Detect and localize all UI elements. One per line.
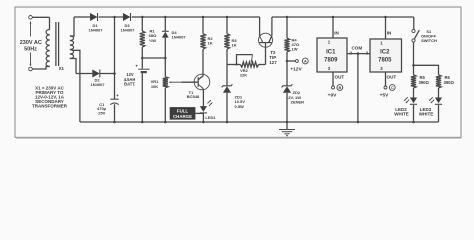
wire AC bottom to transformer	[32, 67, 50, 70]
svg-text:OUT: OUT	[387, 74, 397, 79]
wire LED1 to ground	[202, 113, 204, 122]
svg-text:IN: IN	[387, 31, 392, 36]
node ground VR1	[164, 121, 167, 124]
svg-text:OUT: OUT	[335, 74, 345, 79]
svg-text:BATT.: BATT.	[124, 81, 135, 86]
wire bus to R1	[141, 17, 143, 31]
svg-text:1N4007: 1N4007	[88, 28, 103, 33]
resistor R2	[200, 34, 205, 50]
wire IC1 out	[332, 72, 334, 86]
capacitor C1	[110, 98, 118, 100]
node R4 top	[286, 16, 289, 19]
svg-text:1W: 1W	[292, 47, 298, 52]
svg-text:+12V: +12V	[290, 66, 302, 72]
svg-text:SWITCH: SWITCH	[421, 38, 437, 43]
node ground COM	[357, 121, 360, 124]
svg-text:X1: X1	[59, 66, 65, 71]
resistor R3	[224, 34, 229, 50]
node R1 top	[141, 16, 144, 19]
potentiometer VR1	[163, 77, 168, 88]
wire bus to S1	[413, 17, 415, 29]
resistor R1	[140, 31, 145, 47]
ground	[286, 122, 288, 129]
transformer X1 secondary coil	[70, 36, 74, 59]
wire COM to ground	[357, 54, 359, 122]
wire node to ZD2	[286, 61, 288, 86]
svg-text:LED1: LED1	[205, 115, 216, 120]
wire bus to R2	[202, 17, 204, 34]
svg-text:IC1: IC1	[326, 49, 336, 55]
wire D3 to R1 node	[132, 16, 143, 18]
svg-text:10K: 10K	[151, 84, 158, 89]
wire R2 to T1 collector	[202, 49, 204, 75]
wire T2 collector	[271, 17, 273, 36]
border frame	[15, 7, 461, 137]
node D4 top	[164, 16, 167, 19]
wire VR1 to ground	[164, 88, 166, 122]
switch S1	[412, 29, 415, 32]
wire bus to R3	[226, 17, 228, 34]
AC arrow up	[30, 22, 32, 37]
wire T1 base	[182, 81, 199, 83]
wire LED2 to ground	[413, 105, 415, 122]
AC live terminal	[29, 15, 33, 19]
node +12V	[286, 60, 289, 63]
svg-text:127: 127	[269, 60, 277, 65]
wire T2 base down	[265, 43, 267, 65]
wire secondary top to D1	[74, 16, 90, 18]
transformer X1 primary lead	[49, 17, 51, 29]
svg-text:TRANSFORMER: TRANSFORMER	[32, 103, 68, 108]
transformer X1 center tap	[72, 50, 80, 122]
wire R5 to LED2	[413, 88, 415, 98]
node LED rail	[412, 64, 415, 67]
svg-text:390Ω: 390Ω	[419, 80, 430, 85]
svg-text:B: B	[338, 86, 341, 90]
transformer X1 primary coil	[46, 30, 50, 67]
wire bus to T2 emitter	[254, 16, 260, 18]
wire S1 to LED rail	[413, 42, 415, 75]
potentiometer VR2	[240, 62, 258, 67]
svg-text:7809: 7809	[324, 58, 338, 64]
node R2 top	[202, 16, 205, 19]
wire C1 to ground	[114, 104, 116, 122]
svg-text:WHITE: WHITE	[394, 112, 409, 117]
svg-text:1K: 1K	[208, 40, 213, 45]
wire bus to R4	[286, 17, 288, 38]
wire ZD1 top	[226, 65, 228, 87]
svg-text:+5V: +5V	[380, 93, 389, 99]
terminal C	[384, 86, 387, 89]
wire D2 anode	[76, 73, 92, 75]
zener ZD1	[222, 84, 233, 87]
op-amp U1 IC1 7809 box	[317, 38, 347, 72]
diode D4	[162, 30, 169, 32]
node COM	[357, 52, 360, 55]
op-amp U2 IC2 7805 box	[370, 39, 402, 72]
svg-text:1K: 1K	[232, 42, 237, 47]
svg-text:+9V: +9V	[328, 93, 337, 99]
LED LED1	[200, 106, 207, 112]
wire bus to IC2	[385, 17, 387, 39]
node ground C1	[113, 121, 116, 124]
wire bus to IC1	[332, 17, 334, 38]
node ground LED2	[412, 121, 415, 124]
wire IC2 out	[385, 72, 387, 86]
node D4 battery junction	[164, 57, 167, 60]
node R3 top	[226, 16, 229, 19]
svg-text:IC2: IC2	[380, 49, 390, 55]
diode D3	[123, 13, 131, 21]
node D2 junction	[113, 72, 116, 75]
wire R6 to LED3	[438, 88, 440, 98]
svg-text:7805: 7805	[378, 58, 392, 64]
AC neutral terminal	[29, 67, 33, 71]
wire D1 to node	[99, 16, 123, 18]
node IC1 in	[332, 16, 335, 19]
svg-text:WHITE: WHITE	[419, 112, 434, 117]
node ground ZD2	[286, 121, 289, 124]
svg-text:390Ω: 390Ω	[444, 80, 455, 85]
transformer X1 core	[55, 22, 57, 66]
wire bus to D4	[164, 17, 166, 31]
wire COM	[347, 53, 370, 55]
wire AC top to transformer	[32, 16, 49, 18]
wire ZD2 to ground	[286, 93, 288, 122]
transistor T2 TIP127	[259, 33, 273, 47]
node ground ZD1	[226, 121, 229, 124]
node battery tap	[141, 57, 144, 60]
wire LED3 to ground	[438, 105, 440, 122]
LED LED3	[435, 98, 442, 104]
wire R3 to VR2	[227, 64, 240, 66]
wire LED rail	[414, 65, 439, 75]
wire D4 to VR1	[164, 38, 166, 77]
wire battery to ground	[141, 73, 143, 122]
resistor R6	[436, 75, 441, 88]
wire top bus to battery segment	[142, 16, 254, 18]
svg-text:1N4007: 1N4007	[90, 82, 105, 87]
diode D1	[90, 13, 98, 21]
svg-text:1N4007: 1N4007	[172, 35, 187, 40]
svg-text:½W: ½W	[149, 38, 156, 43]
wire rectifier node down	[114, 17, 116, 99]
transistor T1 BC548	[194, 74, 210, 90]
svg-text:FULL: FULL	[177, 109, 189, 114]
resistor R5	[411, 75, 416, 88]
resistor R4	[284, 38, 289, 52]
wire top bus segment	[272, 16, 414, 18]
svg-text:IN: IN	[334, 31, 339, 36]
terminal A	[287, 60, 296, 62]
svg-text:+: +	[135, 63, 138, 68]
svg-text:+: +	[116, 93, 119, 98]
svg-text:1N4007: 1N4007	[120, 28, 135, 33]
wire R4 to node A	[286, 52, 288, 61]
wire VR2 to T2 base	[259, 64, 266, 66]
wire R3 down	[226, 49, 228, 64]
label FULL CHARGE	[170, 107, 196, 120]
svg-text:230V AC: 230V AC	[20, 40, 42, 46]
svg-text:22K: 22K	[240, 72, 247, 77]
node ground LED1	[202, 121, 205, 124]
ground bus	[80, 121, 439, 123]
node rectifier junction	[113, 16, 116, 19]
AC arrow down	[30, 53, 32, 66]
svg-text:A: A	[304, 60, 307, 64]
node IC2 in	[384, 16, 387, 19]
svg-text:ZENER: ZENER	[291, 99, 305, 104]
svg-text:CHARGE: CHARGE	[173, 114, 192, 119]
svg-text:C: C	[391, 86, 394, 90]
svg-text:BC548: BC548	[187, 94, 200, 99]
terminal B	[332, 86, 335, 89]
svg-text:0.5W: 0.5W	[235, 104, 245, 109]
svg-text:COM: COM	[351, 46, 362, 51]
wire battery rail	[142, 57, 165, 59]
wire ZD1 to ground	[226, 93, 228, 122]
zener ZD2	[282, 84, 293, 87]
transformer X1 secondary bottom lead	[70, 59, 76, 74]
LED LED2	[410, 98, 417, 104]
wire R1 to battery	[141, 47, 143, 69]
wire D2 cathode to node	[100, 73, 115, 75]
transformer X1 secondary lead	[70, 17, 74, 36]
diode D2	[92, 70, 100, 78]
svg-text:25V: 25V	[98, 111, 105, 116]
svg-text:50Hz: 50Hz	[24, 47, 37, 53]
node ground battery	[141, 121, 144, 124]
wire T1 emitter to LED1	[202, 89, 204, 106]
